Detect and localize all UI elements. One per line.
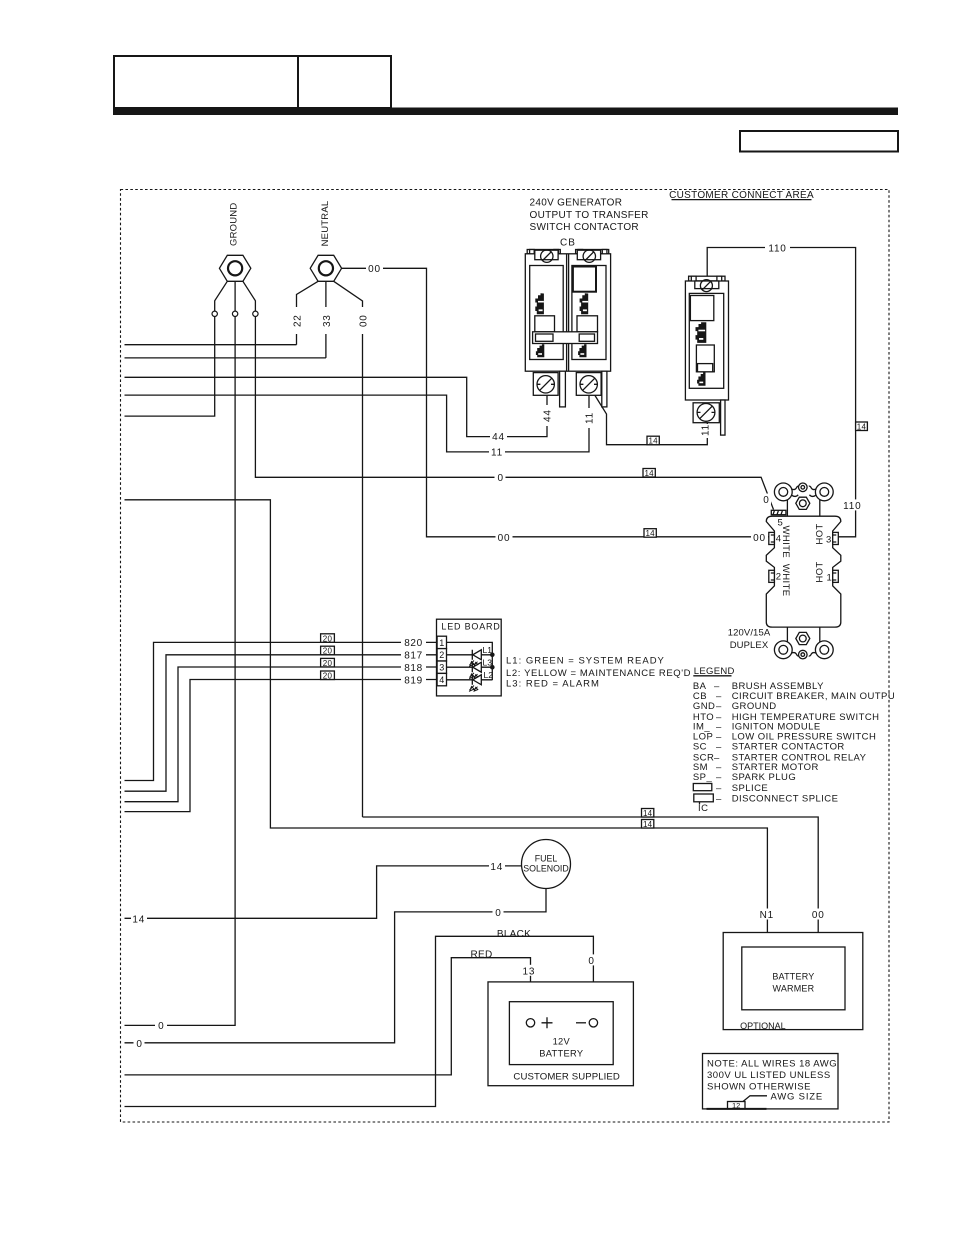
svg-text:44: 44	[543, 409, 554, 422]
LED L2 label	[484, 670, 494, 680]
svg-text:L1: L1	[483, 645, 493, 655]
wire 44 inline label	[490, 432, 507, 444]
svg-text:33: 33	[322, 314, 333, 327]
wire 819 to led board pin 4	[125, 680, 437, 812]
svg-text:14: 14	[644, 469, 654, 478]
svg-text:819: 819	[404, 675, 423, 686]
svg-text:–: –	[716, 741, 722, 752]
svg-text:N1: N1	[760, 910, 774, 921]
wire red label	[470, 950, 492, 961]
svg-text:817: 817	[404, 651, 423, 662]
LED board outline	[437, 619, 502, 696]
ground lug	[219, 255, 250, 281]
battery warmer inner box	[742, 947, 845, 1010]
note text 240V generator output	[530, 198, 649, 234]
wire neutral 00 label at duplex	[751, 531, 768, 544]
wire 14 fuel solenoid feed	[125, 866, 522, 918]
svg-text:4: 4	[439, 675, 444, 685]
legend title	[694, 666, 735, 677]
wire black battery negative	[125, 936, 594, 1106]
legend splice symbol	[693, 784, 712, 791]
wire 817 label	[401, 649, 426, 661]
svg-text:BATTERY: BATTERY	[539, 1049, 583, 1059]
LED board pin 4	[437, 673, 446, 685]
svg-text:0: 0	[136, 1039, 142, 1050]
wire 819 20 awg box	[321, 671, 335, 680]
wire 11 inline label	[489, 447, 505, 459]
svg-text:SP_: SP_	[693, 772, 713, 783]
wire black 0 label	[586, 954, 597, 967]
wire ground b 0 label	[155, 1020, 167, 1032]
svg-text:14: 14	[643, 820, 653, 829]
wire 11 vertical label	[584, 408, 596, 428]
ground lug terminal circles	[212, 311, 258, 316]
wire 44 vertical label	[542, 405, 554, 426]
wire 110 label top	[765, 242, 790, 255]
svg-text:FUEL: FUEL	[535, 854, 558, 864]
svg-text:44: 44	[492, 432, 505, 443]
wire N1 14 awg box	[642, 820, 654, 829]
duplex splice on pin 5	[771, 510, 786, 514]
svg-text:GROUND: GROUND	[732, 701, 777, 712]
svg-text:HOT: HOT	[815, 523, 826, 544]
svg-text:CB: CB	[560, 238, 576, 249]
wire 818 20 awg box	[321, 658, 335, 667]
svg-text:SWITCH CONTACTOR: SWITCH CONTACTOR	[530, 222, 639, 233]
svg-text:11: 11	[701, 424, 712, 436]
svg-text:–: –	[716, 772, 722, 783]
LED board title	[441, 621, 500, 631]
svg-text:SPLICE: SPLICE	[732, 783, 769, 794]
svg-text:WHITE: WHITE	[780, 525, 791, 558]
duplex pin labels	[776, 518, 832, 584]
neutral lug	[310, 255, 341, 281]
svg-text:L1: GREEN = SYSTEM READY: L1: GREEN = SYSTEM READY	[506, 656, 665, 667]
duplex WHITE label lower	[780, 564, 791, 597]
header title block box right	[298, 56, 391, 108]
svg-text:120V/15A: 120V/15A	[728, 628, 771, 639]
duplex receptacle body	[766, 516, 841, 627]
wire neutral warmer 14 awg box	[642, 809, 654, 818]
svg-text:3: 3	[826, 535, 831, 546]
duplex terminal tab pin 1	[833, 570, 839, 582]
LED L3 junction dot	[490, 665, 495, 670]
circuit breaker CB label	[560, 238, 576, 249]
wire N1 label	[758, 909, 777, 921]
wire 820 to led board pin 1	[125, 642, 437, 780]
battery positive terminal	[526, 1017, 552, 1028]
wire ground b lug to bottom left 0	[125, 317, 236, 1026]
svg-text:SPARK PLUG: SPARK PLUG	[732, 772, 797, 783]
svg-text:STARTER CONTACTOR: STARTER CONTACTOR	[732, 741, 845, 752]
svg-text:NOTE: ALL WIRES 18 AWG: NOTE: ALL WIRES 18 AWG	[707, 1058, 837, 1069]
wire 820 20 awg box	[321, 634, 335, 643]
wire 0 fuel solenoid return	[125, 889, 547, 1043]
ground lug fan wires	[215, 281, 256, 311]
svg-text:20: 20	[323, 647, 333, 656]
duplex rating label	[728, 628, 771, 651]
svg-text:SC: SC	[693, 741, 707, 752]
wire jumper 11 vertical label	[699, 424, 712, 438]
wire 0 bottom left label	[134, 1037, 145, 1050]
svg-text:L2: YELLOW = MAINTENANCE REQ'D: L2: YELLOW = MAINTENANCE REQ'D	[506, 668, 691, 679]
wire 0 solenoid label	[493, 906, 504, 919]
svg-text:L2: L2	[484, 670, 494, 680]
svg-text:300V UL LISTED UNLESS: 300V UL LISTED UNLESS	[707, 1070, 831, 1081]
wire 33	[125, 357, 326, 359]
wire black label	[497, 929, 531, 940]
circuit breaker CB main output (double pole)	[525, 250, 610, 407]
neutral lug fan wires	[297, 281, 363, 817]
svg-text:13: 13	[523, 966, 536, 977]
svg-text:2: 2	[439, 650, 444, 660]
note text	[707, 1058, 837, 1092]
header small box right	[740, 131, 898, 152]
svg-text:00: 00	[358, 314, 369, 327]
LED L3	[447, 662, 493, 678]
svg-text:0: 0	[158, 1021, 164, 1032]
svg-text:BLACK: BLACK	[497, 929, 531, 940]
LED L1 junction dot	[490, 653, 495, 658]
LED board pin 1	[437, 636, 446, 648]
LED L1 label	[483, 645, 493, 655]
svg-text:SOLENOID: SOLENOID	[523, 864, 568, 874]
wire 14 label at solenoid	[489, 860, 505, 873]
wire ground c 14 awg box	[643, 469, 655, 478]
svg-text:11: 11	[491, 448, 503, 459]
svg-text:14: 14	[490, 862, 503, 873]
wire ground c 0 label	[495, 472, 506, 484]
wire 818 to led board pin 3	[125, 667, 437, 802]
svg-text:12: 12	[732, 1101, 740, 1110]
svg-text:OUTPUT TO TRANSFER: OUTPUT TO TRANSFER	[530, 210, 649, 221]
svg-text:WHITE: WHITE	[780, 564, 791, 597]
wire 00 neutral drop label	[357, 307, 369, 334]
wire 110 label at duplex	[842, 499, 863, 512]
svg-text:0: 0	[763, 495, 769, 506]
duplex terminal tab pin 3	[833, 532, 839, 544]
svg-text:–: –	[716, 783, 722, 794]
wire 819 label	[401, 674, 426, 686]
svg-text:–: –	[716, 794, 722, 805]
svg-text:20: 20	[323, 672, 333, 681]
neutral lug label	[320, 201, 331, 247]
legend entries	[693, 681, 895, 783]
wire jumper 14 awg box	[647, 436, 659, 445]
wire 110 breaker to duplex pin 3	[707, 248, 855, 537]
wire neutral 00 label mid	[496, 531, 513, 544]
customer connect area title underline	[672, 199, 812, 201]
header thick rule	[113, 108, 898, 116]
svg-text:00: 00	[812, 910, 825, 921]
svg-text:22: 22	[292, 314, 303, 327]
svg-text:14: 14	[648, 437, 658, 446]
battery labels	[513, 1037, 620, 1083]
fuel solenoid label	[523, 854, 568, 874]
svg-text:14: 14	[645, 529, 655, 538]
duplex bottom mounting strap	[774, 627, 833, 659]
svg-text:110: 110	[843, 501, 861, 512]
customer connect area dashed boundary	[121, 190, 890, 1123]
svg-text:00: 00	[498, 533, 511, 544]
duplex WHITE label upper	[780, 525, 791, 558]
svg-text:L3: L3	[483, 657, 493, 667]
svg-text:GND: GND	[693, 701, 715, 712]
wire neutral 00 label top	[366, 263, 383, 275]
wire 44 from left to breaker	[125, 377, 548, 436]
svg-text:0: 0	[498, 473, 504, 484]
wire neutral 00 to duplex pin 4	[342, 268, 769, 537]
LED board pin 3	[437, 661, 446, 673]
svg-text:1: 1	[439, 638, 444, 648]
svg-text:110: 110	[768, 244, 786, 255]
wire 817 20 awg box	[321, 646, 335, 655]
svg-text:DISCONNECT SPLICE: DISCONNECT SPLICE	[732, 794, 839, 805]
LED common bus wire	[447, 642, 493, 680]
svg-text:240V GENERATOR: 240V GENERATOR	[530, 198, 623, 209]
svg-text:820: 820	[404, 638, 423, 649]
wire neutral diag 00 to battery warmer 00	[363, 817, 819, 947]
legend title underline	[693, 675, 731, 677]
note box	[703, 1054, 839, 1109]
wire 817 to led board pin 2	[125, 655, 437, 791]
svg-text:RED: RED	[470, 950, 492, 961]
svg-text:CUSTOMER SUPPLIED: CUSTOMER SUPPLIED	[513, 1071, 620, 1082]
svg-text:NEUTRAL: NEUTRAL	[320, 201, 331, 247]
wire 818 label	[401, 662, 426, 674]
battery warmer labels	[740, 971, 815, 1031]
svg-text:OPTIONAL: OPTIONAL	[740, 1021, 786, 1031]
LED legend text	[506, 656, 691, 690]
wire 33 label	[320, 307, 332, 334]
wire red 13 label	[521, 965, 537, 978]
wire breaker 11 jumper to single breaker	[593, 392, 708, 445]
ground lug label	[229, 203, 240, 246]
duplex top mounting strap	[774, 483, 833, 516]
svg-text:0: 0	[495, 908, 501, 919]
svg-text:GROUND: GROUND	[229, 203, 240, 246]
svg-text:3: 3	[439, 663, 444, 673]
wire red battery positive	[125, 958, 531, 1075]
svg-text:14: 14	[643, 809, 653, 818]
duplex terminal tab pin 4	[769, 532, 775, 544]
svg-text:HOT: HOT	[815, 561, 826, 582]
wire 22 label	[291, 307, 303, 334]
duplex terminal tab pin 2	[769, 570, 775, 582]
wire ground c 0 label near duplex	[761, 494, 771, 506]
svg-text:0: 0	[588, 956, 594, 967]
battery warmer outer box	[723, 933, 863, 1030]
wire ground c lug to duplex pin 5	[255, 317, 773, 510]
svg-text:14: 14	[132, 914, 145, 925]
svg-text:BATTERY: BATTERY	[772, 971, 814, 981]
svg-text:–: –	[716, 701, 722, 712]
duplex HOT label lower	[815, 561, 826, 582]
svg-text:AWG SIZE: AWG SIZE	[771, 1091, 824, 1102]
svg-text:LED BOARD: LED BOARD	[441, 621, 500, 631]
battery outer box customer supplied	[488, 982, 633, 1086]
LED board pin 2	[437, 649, 446, 661]
header title block box left	[114, 56, 298, 108]
wire warmer 00 label	[810, 909, 827, 921]
wire neutral 00 14 awg box	[644, 529, 656, 538]
svg-text:00: 00	[368, 264, 381, 275]
LED L2	[447, 675, 493, 691]
LED L3 label	[483, 657, 493, 667]
wire 11 from left to breaker	[125, 394, 590, 452]
wire 110 14 awg box	[856, 422, 868, 431]
wire 820 label	[401, 637, 426, 649]
wire N1 left to battery warmer	[125, 500, 768, 947]
LED L1	[447, 650, 493, 666]
svg-text:DUPLEX: DUPLEX	[730, 640, 769, 651]
battery negative terminal	[576, 1019, 598, 1027]
svg-text:20: 20	[323, 634, 333, 643]
svg-text:IC: IC	[698, 803, 708, 814]
svg-text:L3: RED = ALARM: L3: RED = ALARM	[506, 679, 600, 690]
battery 12V inner box	[509, 1002, 613, 1065]
wire 22	[125, 344, 297, 346]
duplex HOT label upper	[815, 523, 826, 544]
svg-text:1: 1	[827, 573, 832, 584]
wire ground a from left to lug	[125, 317, 215, 417]
customer connect area title	[668, 190, 815, 201]
svg-text:00: 00	[753, 533, 766, 544]
note awg size callout	[707, 1096, 768, 1109]
svg-text:20: 20	[323, 659, 333, 668]
svg-text:818: 818	[404, 663, 423, 674]
svg-text:14: 14	[857, 423, 867, 432]
wire 14 label left	[131, 913, 147, 926]
fuel solenoid	[522, 840, 571, 889]
svg-text:11: 11	[585, 412, 596, 424]
svg-text:WARMER: WARMER	[772, 983, 814, 993]
circuit breaker single (downstream)	[685, 276, 728, 435]
legend disconnect splice symbol	[694, 794, 714, 804]
svg-text:12V: 12V	[553, 1037, 571, 1047]
